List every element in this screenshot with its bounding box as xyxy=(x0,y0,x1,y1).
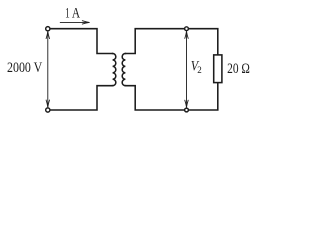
svg-text:1: 1 xyxy=(65,6,70,22)
svg-text:2: 2 xyxy=(197,65,202,75)
svg-text:20 Ω: 20 Ω xyxy=(227,61,250,77)
svg-text:A: A xyxy=(72,6,80,22)
svg-text:2000 V: 2000 V xyxy=(7,60,42,76)
